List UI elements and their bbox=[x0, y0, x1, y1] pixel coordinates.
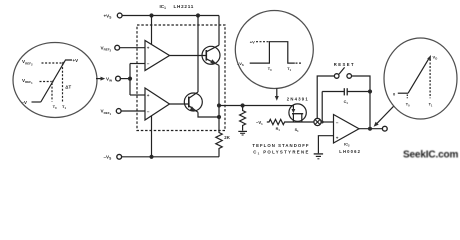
wire VIN branch vertical bbox=[129, 64, 131, 96]
wire VIN branch to comparator2 bbox=[130, 94, 145, 96]
svg-text:–VS: –VS bbox=[237, 61, 244, 67]
wire VIN branch to comparator1 bbox=[130, 63, 145, 65]
svg-text:VREF2: VREF2 bbox=[101, 45, 112, 52]
svg-text:LH2211: LH2211 bbox=[174, 4, 195, 9]
capacitor C1 bbox=[322, 91, 344, 93]
wire Q1 collector to rail bbox=[218, 16, 220, 46]
wire annotation arrow from output circle bbox=[377, 106, 394, 124]
svg-text:LH0062: LH0062 bbox=[339, 149, 361, 154]
resistor R1 bbox=[267, 119, 285, 124]
svg-text:+: + bbox=[147, 93, 150, 98]
resistor 2K bbox=[216, 133, 222, 151]
svg-text:T1: T1 bbox=[62, 104, 66, 110]
wire summing line bbox=[285, 121, 314, 123]
transistor Q1 bbox=[202, 46, 220, 64]
wire VREF2 to comparator bbox=[120, 47, 145, 49]
wire pulse +V dashed level bbox=[256, 41, 269, 43]
svg-text:RESET: RESET bbox=[334, 62, 355, 67]
wire cap left drop bbox=[321, 92, 323, 123]
svg-text:VREF2: VREF2 bbox=[22, 59, 33, 66]
svg-text:SeekIC.com: SeekIC.com bbox=[403, 150, 458, 161]
wire pulse waveform bbox=[250, 42, 295, 63]
wire output ramp bbox=[408, 58, 429, 93]
op-amp U1a comparator bbox=[145, 41, 170, 71]
svg-text:+: + bbox=[336, 135, 339, 140]
svg-text:R1: R1 bbox=[276, 127, 281, 132]
transistor Q2 bbox=[184, 93, 202, 111]
wire T1 dashed vertical bbox=[62, 64, 64, 102]
wire output ramp baseline bbox=[398, 92, 408, 94]
wire +Vs rail bbox=[122, 15, 219, 17]
node junction dot pulldown bbox=[241, 103, 245, 107]
node output-waveform circle bbox=[384, 38, 457, 119]
wire output T0 tick bbox=[406, 95, 408, 99]
svg-text:2N4391: 2N4391 bbox=[287, 96, 309, 101]
wire gate node to JFET bbox=[219, 105, 290, 107]
svg-text:C1 POLYSTYRENE: C1 POLYSTYRENE bbox=[253, 150, 309, 156]
svg-text:VREF1: VREF1 bbox=[101, 109, 112, 116]
svg-text:–VS: –VS bbox=[104, 155, 112, 161]
node junction dot cap-right bbox=[368, 89, 372, 93]
svg-text:IC1: IC1 bbox=[160, 4, 167, 10]
svg-text:−: − bbox=[147, 62, 150, 67]
node input-waveform circle bbox=[13, 43, 97, 118]
wire Q2 collector to rail bbox=[197, 16, 199, 93]
node junction dot rail-left bbox=[149, 13, 153, 17]
wire VIN to junction bbox=[121, 78, 130, 80]
wire output T1 dashed bbox=[429, 59, 431, 98]
op-amp IC1 dashed package box bbox=[137, 25, 225, 131]
node output terminal bbox=[382, 126, 387, 131]
wire standoff to op-amp bbox=[321, 121, 333, 123]
wire ramp diagonal bbox=[41, 60, 72, 102]
svg-text:VREF1: VREF1 bbox=[22, 78, 33, 85]
wire VREF2 dashed level bbox=[42, 62, 63, 64]
wire op-amp output bbox=[359, 128, 382, 130]
op-amp U1b comparator bbox=[145, 88, 170, 120]
wire 2K to -Vs rail bbox=[218, 150, 220, 157]
wire switch to feedback right bbox=[352, 76, 371, 127]
wire arrow to VIN bbox=[96, 78, 101, 80]
resistor gate pulldown bbox=[240, 106, 246, 131]
wire U1b output to Q2 base bbox=[170, 103, 189, 105]
svg-text:ΔT: ΔT bbox=[65, 84, 71, 89]
svg-text:T1: T1 bbox=[429, 103, 433, 108]
ground op-amp bbox=[314, 153, 323, 155]
svg-text:T1: T1 bbox=[287, 67, 291, 72]
svg-text:S1: S1 bbox=[295, 128, 300, 133]
node junction dot output bbox=[368, 127, 372, 131]
wire annotation arrow to gate node bbox=[276, 88, 278, 96]
svg-text:–V1: –V1 bbox=[256, 120, 263, 126]
node junction dot rail-right bbox=[196, 13, 200, 17]
svg-text:VIN: VIN bbox=[106, 76, 112, 82]
svg-text:IC2: IC2 bbox=[344, 141, 350, 147]
svg-text:VO: VO bbox=[433, 55, 439, 61]
wire ramp baseline bbox=[32, 101, 41, 103]
svg-text:+VS: +VS bbox=[104, 13, 112, 19]
node teflon standoff bbox=[314, 118, 321, 125]
svg-text:TEFLON STANDOFF: TEFLON STANDOFF bbox=[252, 143, 309, 148]
svg-text:−: − bbox=[336, 121, 339, 126]
node junction dot emitter-join bbox=[217, 115, 221, 119]
wire U1a output to Q1 base bbox=[170, 55, 207, 57]
wire Q2 emitter to join bbox=[198, 112, 219, 117]
wire VREF1 to comparator bbox=[121, 110, 145, 112]
wire op-amp + input to ground bbox=[318, 136, 333, 154]
node junction dot -Vs bbox=[149, 155, 153, 159]
svg-text:+: + bbox=[147, 46, 150, 51]
wire T0 dashed vertical bbox=[51, 83, 53, 102]
svg-text:+V: +V bbox=[250, 40, 255, 45]
svg-text:0: 0 bbox=[393, 92, 396, 97]
svg-text:+V: +V bbox=[73, 58, 79, 63]
svg-text:−: − bbox=[147, 110, 150, 115]
wire feedback left vertical bbox=[317, 76, 334, 118]
node pulse-waveform circle bbox=[235, 11, 313, 89]
ground gate pulldown bbox=[238, 130, 247, 132]
wire -Vs rail bbox=[122, 156, 219, 158]
op-amp IC2 bbox=[334, 115, 360, 144]
node junction dot gate-node bbox=[217, 103, 221, 107]
svg-text:T0: T0 bbox=[53, 104, 57, 110]
wire VREF1 dashed level bbox=[40, 81, 52, 83]
svg-text:T0: T0 bbox=[406, 103, 410, 108]
svg-text:C1: C1 bbox=[344, 100, 349, 105]
svg-text:2K: 2K bbox=[224, 135, 230, 140]
wire U1b power pin bbox=[151, 116, 153, 157]
svg-text:T0: T0 bbox=[268, 67, 272, 72]
wire U1a power pin bbox=[151, 16, 153, 45]
wire Q1 emitter down bbox=[218, 65, 220, 133]
svg-text:–V: –V bbox=[22, 100, 27, 105]
node junction dot VIN bbox=[128, 77, 132, 81]
